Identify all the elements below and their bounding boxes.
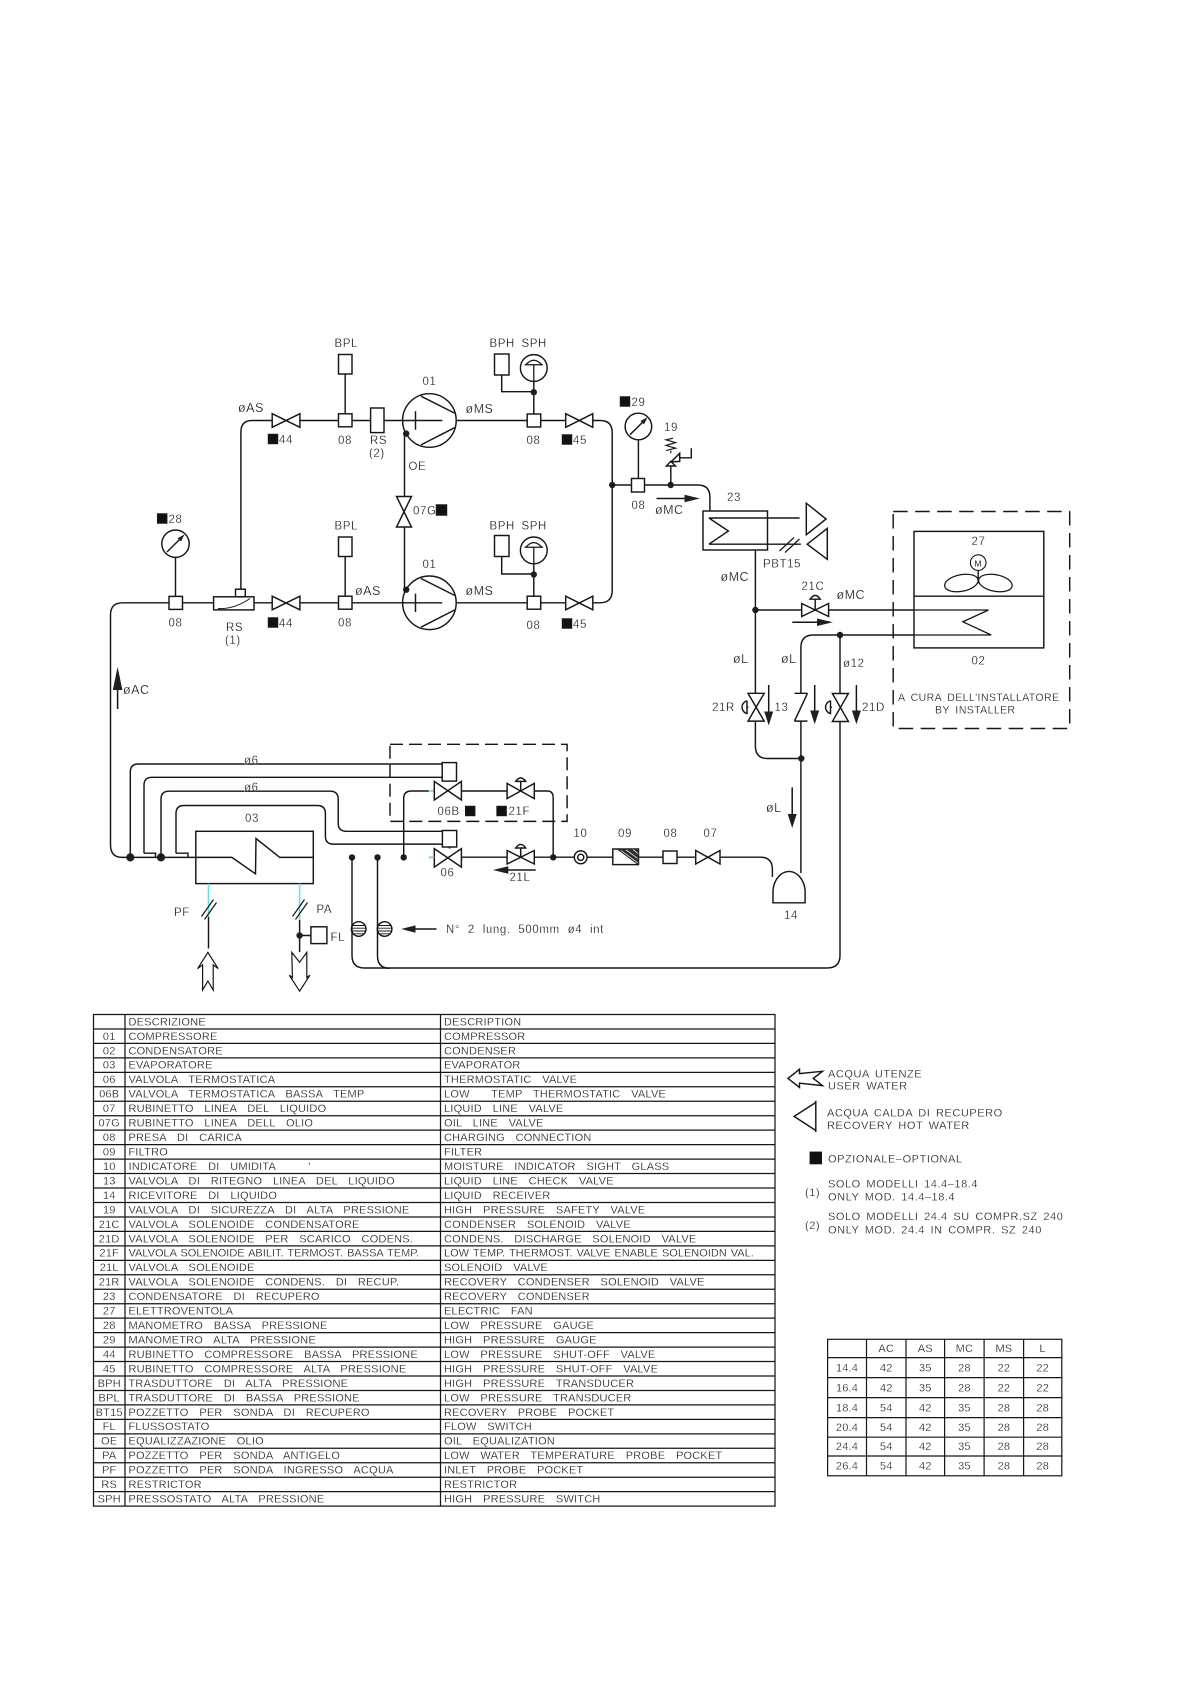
svg-text:CHARGING CONNECTION: CHARGING CONNECTION	[444, 1132, 592, 1144]
svg-text:PF: PF	[174, 907, 190, 919]
legend row 21D	[99, 1233, 697, 1245]
filter 09	[613, 849, 639, 865]
svg-text:POZZETTO PER SONDA DI RECUPERO: POZZETTO PER SONDA DI RECUPERO	[129, 1407, 370, 1419]
svg-text:44: 44	[279, 435, 293, 447]
node: relief valve tee	[668, 482, 674, 488]
label 03	[245, 813, 259, 825]
svg-text:LOW TEMP THERMOSTATIC VALVE: LOW TEMP THERMOSTATIC VALVE	[444, 1089, 666, 1101]
note (2)	[805, 1220, 820, 1232]
label oMC header	[655, 503, 684, 517]
wire: lower suction line from left bus	[111, 603, 403, 858]
size table row header	[878, 1343, 1046, 1355]
svg-text:BPH: BPH	[490, 521, 515, 533]
svg-text:21C: 21C	[802, 581, 825, 593]
svg-text:21R: 21R	[712, 702, 735, 714]
wire: capillary 2	[378, 857, 391, 968]
legend row 21C	[99, 1219, 631, 1231]
svg-text:RUBINETTO COMPRESSORE BASSA PR: RUBINETTO COMPRESSORE BASSA PRESSIONE	[129, 1349, 418, 1361]
svg-text:28: 28	[169, 514, 183, 526]
arrow capillary note	[401, 925, 436, 932]
svg-text:RECOVERY HOT WATER: RECOVERY HOT WATER	[827, 1120, 970, 1132]
wire: upper discharge line oMS	[456, 421, 612, 603]
svg-text:07: 07	[704, 828, 718, 840]
svg-text:14: 14	[103, 1190, 116, 1202]
svg-text:09: 09	[618, 828, 632, 840]
legend row 13	[103, 1175, 614, 1187]
condenser 02 box	[914, 531, 1044, 648]
svg-text:øL: øL	[733, 652, 749, 666]
svg-text:22: 22	[998, 1382, 1011, 1394]
svg-text:BPL: BPL	[98, 1392, 119, 1404]
svg-text:28: 28	[1036, 1461, 1049, 1473]
svg-text:OIL LINE VALVE: OIL LINE VALVE	[444, 1118, 544, 1130]
legend row 21R	[99, 1277, 705, 1289]
label 08 upper discharge	[527, 435, 541, 447]
svg-text:COMPRESSORE: COMPRESSORE	[129, 1031, 218, 1043]
svg-text:02: 02	[972, 656, 986, 668]
installer dashed box	[893, 512, 1069, 729]
flow switch FL	[311, 927, 327, 944]
label oL 21R	[733, 652, 749, 666]
solenoid valve 21D	[826, 694, 849, 722]
svg-text:VALVOLA TERMOSTATICA: VALVOLA TERMOSTATICA	[129, 1074, 276, 1086]
svg-text:35: 35	[958, 1441, 971, 1453]
label RS(1)	[225, 622, 243, 647]
svg-text:35: 35	[958, 1461, 971, 1473]
svg-text:øMS: øMS	[466, 402, 494, 416]
svg-text:FILTRO: FILTRO	[129, 1147, 169, 1159]
node: bulb line C tee	[157, 853, 165, 861]
label ACQUA UTENZE	[828, 1069, 922, 1081]
svg-text:MS: MS	[995, 1343, 1012, 1355]
wire: PF water inlet line	[208, 917, 210, 949]
arrow oMC into condenser	[792, 619, 833, 627]
label SPH lower	[522, 521, 547, 533]
wire: 21R drop line	[755, 610, 801, 759]
svg-text:45: 45	[573, 619, 587, 631]
svg-text:øMC: øMC	[837, 588, 866, 602]
svg-text:29: 29	[632, 397, 646, 409]
svg-text:ELETTROVENTOLA: ELETTROVENTOLA	[129, 1306, 234, 1318]
svg-text:VALVOLA DI RITEGNO LINEA DEL L: VALVOLA DI RITEGNO LINEA DEL LIQUIDO	[129, 1175, 396, 1187]
svg-text:RECOVERY CONDENSER SOLENOID VA: RECOVERY CONDENSER SOLENOID VALVE	[444, 1277, 705, 1289]
label 08 upper suction	[338, 435, 352, 447]
node: receiver feed junction	[798, 755, 804, 761]
svg-text:LOW PRESSURE TRANSDUCER: LOW PRESSURE TRANSDUCER	[444, 1392, 631, 1404]
svg-text:øL: øL	[766, 801, 782, 815]
svg-text:ONLY MOD. 14.4–18.4: ONLY MOD. 14.4–18.4	[828, 1192, 955, 1204]
node: 21D tee	[837, 632, 843, 638]
wire: liquid line from receiver to filter to TXV	[429, 857, 772, 877]
connector 08 lower suction left	[169, 596, 183, 609]
svg-text:21D: 21D	[862, 702, 885, 714]
valve 07 liquid line	[696, 851, 720, 865]
node: discharge bus junction	[609, 482, 615, 488]
svg-text:28: 28	[1036, 1441, 1049, 1453]
svg-text:LOW TEMP. THERMOST. VALVE ENAB: LOW TEMP. THERMOST. VALVE ENABLE SOLENOI…	[444, 1248, 754, 1260]
svg-text:08: 08	[664, 828, 678, 840]
size table row 24.4	[836, 1441, 1049, 1453]
legend row 10	[103, 1161, 669, 1173]
svg-text:13: 13	[103, 1175, 116, 1187]
legend row OE	[101, 1436, 555, 1448]
label N 2 lung. 500mm o4 int	[446, 924, 604, 936]
label SOLO MODELLI 24.4 SU COMPR.SZ 240	[828, 1211, 1063, 1223]
check valve 13	[795, 693, 808, 721]
wire: check valve 13 drop line	[800, 648, 802, 874]
label 21C	[802, 581, 825, 593]
svg-text:42: 42	[919, 1461, 932, 1473]
svg-text:23: 23	[103, 1291, 116, 1303]
legend row 27	[103, 1306, 533, 1318]
label 07G	[413, 505, 447, 518]
svg-text:TRASDUTTORE DI ALTA PRESSIONE: TRASDUTTORE DI ALTA PRESSIONE	[129, 1378, 349, 1390]
svg-text:RECOVERY CONDENSER: RECOVERY CONDENSER	[444, 1291, 590, 1303]
legend row SPH	[98, 1494, 601, 1506]
compressor 01 lower	[403, 576, 457, 630]
label PA	[317, 904, 333, 916]
label PF	[174, 907, 190, 919]
svg-text:21D: 21D	[99, 1233, 120, 1245]
svg-text:35: 35	[919, 1382, 932, 1394]
svg-text:35: 35	[919, 1362, 932, 1374]
solenoid valve 21L	[507, 844, 534, 864]
svg-text:(1): (1)	[805, 1187, 820, 1199]
legend row BT15	[96, 1407, 615, 1419]
arrow down to receiver	[788, 787, 797, 828]
svg-text:44: 44	[103, 1349, 116, 1361]
arrow water outlet (outline down)	[289, 952, 310, 991]
label BPH upper	[490, 338, 515, 350]
node: oil equalization tap lower	[403, 587, 409, 593]
evaporator 03	[196, 831, 313, 883]
svg-text:PA: PA	[102, 1450, 117, 1462]
svg-text:VALVOLA TERMOSTATICA BASSA TEM: VALVOLA TERMOSTATICA BASSA TEMP	[129, 1089, 365, 1101]
wire: 21F branch down	[534, 791, 553, 857]
recovery condenser 23	[703, 511, 801, 550]
arrow down after 21R	[764, 685, 773, 725]
svg-text:VALVOLA SOLENOIDE CONDENS. DI: VALVOLA SOLENOIDE CONDENS. DI RECUP.	[129, 1277, 400, 1289]
svg-text:FL: FL	[103, 1421, 116, 1433]
svg-text:(1): (1)	[225, 635, 241, 647]
label oMC vertical	[721, 570, 750, 584]
solenoid valve 21F	[507, 778, 534, 799]
svg-text:L: L	[1040, 1343, 1046, 1355]
legend row 08	[103, 1132, 592, 1144]
valve 44 upper	[272, 414, 300, 428]
transducer BPL upper	[339, 355, 353, 414]
wire: cyan tick 06B inlet	[429, 790, 435, 792]
valve 45 upper	[566, 414, 593, 428]
svg-text:FILTER: FILTER	[444, 1147, 482, 1159]
label 28	[158, 514, 183, 526]
svg-text:PA: PA	[317, 904, 333, 916]
svg-text:01: 01	[423, 376, 437, 388]
label 08 liquid line	[664, 828, 678, 840]
svg-text:CONDENSATORE: CONDENSATORE	[129, 1045, 223, 1057]
svg-text:22: 22	[998, 1362, 1011, 1374]
svg-text:MANOMETRO BASSA PRESSIONE: MANOMETRO BASSA PRESSIONE	[129, 1320, 328, 1332]
svg-text:21R: 21R	[99, 1277, 120, 1289]
legend row 19	[103, 1204, 645, 1216]
node: oil equalization tap upper	[403, 430, 409, 436]
svg-text:POZZETTO PER SONDA ANTIGELO: POZZETTO PER SONDA ANTIGELO	[129, 1450, 341, 1462]
svg-text:LOW PRESSURE GAUGE: LOW PRESSURE GAUGE	[444, 1320, 594, 1332]
connector 08 oMC header	[632, 479, 645, 493]
svg-text:TRASDUTTORE DI BASSA PRESSIONE: TRASDUTTORE DI BASSA PRESSIONE	[129, 1392, 360, 1404]
wire: 21D drop line	[827, 635, 840, 968]
wire: bulb line A	[130, 764, 442, 857]
svg-text:CONDENSATORE DI RECUPERO: CONDENSATORE DI RECUPERO	[129, 1291, 320, 1303]
capillary coil 1	[351, 922, 366, 937]
svg-text:08: 08	[632, 500, 646, 512]
svg-text:42: 42	[919, 1422, 932, 1434]
label o6 lower	[244, 782, 259, 794]
svg-text:HIGH PRESSURE GAUGE: HIGH PRESSURE GAUGE	[444, 1335, 597, 1347]
svg-text:RUBINETTO LINEA DEL LIQUIDO: RUBINETTO LINEA DEL LIQUIDO	[129, 1103, 327, 1115]
connector 08 liquid line	[663, 851, 677, 864]
fan motor M	[970, 555, 986, 583]
svg-text:14: 14	[784, 910, 798, 922]
svg-text:54: 54	[880, 1422, 893, 1434]
probe pocket PBT15 slash	[780, 538, 800, 553]
label 01 lower	[423, 559, 437, 571]
wire: bottom equalizer run	[365, 967, 828, 969]
label 21R	[712, 702, 735, 714]
svg-text:27: 27	[103, 1306, 116, 1318]
svg-text:10: 10	[103, 1161, 116, 1173]
symbol: user water outlet triangle	[806, 503, 826, 535]
svg-text:06B: 06B	[438, 806, 460, 818]
svg-text:ø6: ø6	[244, 755, 259, 767]
svg-text:øAS: øAS	[238, 401, 264, 415]
svg-text:CONDENSER SOLENOID VALVE: CONDENSER SOLENOID VALVE	[444, 1219, 631, 1231]
svg-text:28: 28	[998, 1422, 1011, 1434]
svg-text:26.4: 26.4	[836, 1461, 858, 1473]
size table row 14.4	[836, 1362, 1049, 1374]
wire: lower discharge line oMS	[456, 602, 566, 604]
svg-text:FLOW SWITCH: FLOW SWITCH	[444, 1421, 532, 1433]
svg-text:MC: MC	[956, 1343, 974, 1355]
svg-text:21L: 21L	[510, 872, 531, 884]
arrow water inlet (outline up)	[198, 952, 219, 990]
label ONLY MOD. 24.4 IN COMPR. SZ 240	[828, 1225, 1042, 1237]
svg-text:35: 35	[958, 1402, 971, 1414]
label oAS lower	[355, 584, 381, 598]
legend row PA	[102, 1450, 722, 1462]
legend row 44	[103, 1349, 656, 1361]
svg-text:RICEVITORE DI LIQUIDO: RICEVITORE DI LIQUIDO	[129, 1190, 278, 1202]
svg-text:DESCRIZIONE: DESCRIZIONE	[129, 1016, 206, 1028]
svg-text:SOLENOID VALVE: SOLENOID VALVE	[444, 1262, 548, 1274]
svg-text:ø12: ø12	[843, 658, 865, 670]
compressor size table frame	[828, 1339, 1062, 1476]
svg-text:ONLY MOD. 24.4 IN COMPR. SZ 24: ONLY MOD. 24.4 IN COMPR. SZ 240	[828, 1225, 1042, 1237]
svg-text:19: 19	[103, 1204, 116, 1216]
svg-text:LIQUID RECEIVER: LIQUID RECEIVER	[444, 1190, 550, 1202]
symbol: recovery hot water triangle	[794, 1101, 816, 1132]
svg-text:N° 2 lung. 500mm ø4 int: N° 2 lung. 500mm ø4 int	[446, 924, 604, 936]
label USER WATER	[828, 1081, 908, 1093]
node BPH/SPH junction lower	[531, 571, 537, 577]
svg-text:RS: RS	[226, 622, 243, 634]
svg-text:BPL: BPL	[335, 338, 359, 350]
electric fan 27 blades	[943, 572, 1014, 595]
size table row 20.4	[836, 1422, 1049, 1434]
label 08 lower suction right	[338, 618, 352, 630]
svg-text:BPH: BPH	[98, 1378, 121, 1390]
legend row 09	[103, 1147, 482, 1159]
legend row 29	[103, 1335, 597, 1347]
node: 21F branch junction	[550, 854, 556, 860]
size table row 26.4	[836, 1461, 1049, 1473]
svg-text:FL: FL	[331, 932, 346, 944]
svg-text:(2): (2)	[805, 1220, 820, 1232]
svg-text:OPZIONALE–OPTIONAL: OPZIONALE–OPTIONAL	[828, 1154, 963, 1166]
label ACQUA CALDA DI RECUPERO	[827, 1108, 1003, 1120]
svg-text:PBT15: PBT15	[763, 559, 801, 571]
svg-text:54: 54	[880, 1441, 893, 1453]
probe pocket PA slashes	[293, 900, 308, 920]
svg-text:23: 23	[727, 492, 741, 504]
svg-text:10: 10	[574, 828, 588, 840]
wire: 06B to 21F	[461, 790, 507, 792]
connector 08 lower discharge	[527, 596, 541, 609]
svg-text:A CURA DELL'INSTALLATORE: A CURA DELL'INSTALLATORE	[898, 692, 1059, 704]
svg-text:09: 09	[103, 1147, 116, 1159]
svg-text:M: M	[974, 558, 981, 568]
connector 08 lower suction right	[339, 596, 353, 609]
svg-text:08: 08	[169, 618, 183, 630]
label 21F	[497, 806, 530, 818]
svg-text:EVAPORATORE: EVAPORATORE	[129, 1060, 213, 1072]
label 08 lower discharge	[527, 620, 541, 632]
svg-text:MANOMETRO ALTA PRESSIONE: MANOMETRO ALTA PRESSIONE	[129, 1335, 316, 1347]
legend row FL	[103, 1421, 532, 1433]
svg-text:PRESSOSTATO ALTA PRESSIONE: PRESSOSTATO ALTA PRESSIONE	[129, 1494, 325, 1506]
svg-text:SOLO MODELLI 24.4 SU COMPR.SZ: SOLO MODELLI 24.4 SU COMPR.SZ 240	[828, 1211, 1063, 1223]
legend row 21F	[99, 1248, 753, 1260]
svg-text:06: 06	[103, 1074, 116, 1086]
label o6 upper	[244, 755, 259, 767]
svg-text:HIGH PRESSURE TRANSDUCER: HIGH PRESSURE TRANSDUCER	[444, 1378, 634, 1390]
label 44 upper	[269, 435, 294, 447]
compressor 01 upper	[403, 394, 457, 448]
label 23	[727, 492, 741, 504]
legend row BPL	[98, 1392, 631, 1404]
label 08 oMC header	[632, 500, 646, 512]
liquid receiver 14	[773, 871, 805, 902]
legend row PF	[102, 1465, 584, 1477]
label RECOVERY HOT WATER	[827, 1120, 970, 1132]
svg-text:LOW PRESSURE SHUT-OFF VALVE: LOW PRESSURE SHUT-OFF VALVE	[444, 1349, 655, 1361]
label OE	[409, 461, 427, 473]
svg-text:INLET PROBE POCKET: INLET PROBE POCKET	[444, 1465, 584, 1477]
wire: PA water outlet line	[300, 920, 311, 952]
svg-text:RESTRICTOR: RESTRICTOR	[129, 1479, 202, 1491]
svg-text:CONDENS. DISCHARGE SOLENOID VA: CONDENS. DISCHARGE SOLENOID VALVE	[444, 1233, 696, 1245]
svg-text:RESTRICTOR: RESTRICTOR	[444, 1479, 517, 1491]
svg-text:øAS: øAS	[355, 584, 381, 598]
svg-text:13: 13	[775, 702, 789, 714]
pressure switch SPH lower	[520, 537, 547, 596]
label A CURA DELL'INSTALLATORE	[898, 692, 1059, 704]
svg-text:28: 28	[958, 1362, 971, 1374]
svg-text:ACQUA CALDA DI RECUPERO: ACQUA CALDA DI RECUPERO	[827, 1108, 1003, 1120]
svg-text:24.4: 24.4	[836, 1441, 858, 1453]
sight glass 10	[574, 851, 587, 864]
size table row 16.4	[836, 1382, 1049, 1394]
svg-text:45: 45	[573, 435, 587, 447]
node BPH/SPH junction upper	[531, 389, 537, 395]
svg-text:LIQUID LINE VALVE: LIQUID LINE VALVE	[444, 1103, 563, 1115]
label 10	[574, 828, 588, 840]
node: flow switch tee	[296, 932, 302, 938]
svg-text:CONDENSER: CONDENSER	[444, 1045, 516, 1057]
legend row 03	[103, 1060, 521, 1072]
svg-text:01: 01	[423, 559, 437, 571]
svg-text:RS: RS	[101, 1479, 117, 1491]
valve 44 lower	[272, 596, 300, 610]
wire: oMC header line	[612, 485, 710, 511]
wire: bulb line B	[144, 777, 442, 857]
node: TXV feed tee	[401, 854, 407, 860]
label 07	[704, 828, 718, 840]
svg-text:28: 28	[998, 1461, 1011, 1473]
transducer BPL lower	[339, 537, 353, 596]
svg-text:HIGH PRESSURE SAFETY VALVE: HIGH PRESSURE SAFETY VALVE	[444, 1204, 645, 1216]
node: capillary 2 tee	[374, 854, 380, 860]
restrictor RS(2)	[371, 408, 384, 433]
legend row 06B	[99, 1089, 666, 1101]
svg-text:21L: 21L	[100, 1262, 119, 1274]
svg-text:VALVOLA DI SICUREZZA DI ALTA P: VALVOLA DI SICUREZZA DI ALTA PRESSIONE	[129, 1204, 410, 1216]
svg-text:01: 01	[103, 1031, 116, 1043]
svg-text:28: 28	[998, 1402, 1011, 1414]
legend table frame	[94, 1015, 776, 1507]
svg-text:28: 28	[958, 1382, 971, 1394]
svg-text:ø6: ø6	[244, 782, 259, 794]
svg-text:øMC: øMC	[721, 570, 750, 584]
gauge 28 low pressure	[162, 530, 189, 596]
svg-text:03: 03	[103, 1060, 116, 1072]
label 19	[664, 422, 678, 434]
svg-text:OE: OE	[409, 461, 427, 473]
label PBT15	[763, 559, 801, 571]
svg-text:28: 28	[998, 1441, 1011, 1453]
legend row 07G	[98, 1118, 543, 1130]
svg-text:MOISTURE INDICATOR SIGHT GLASS: MOISTURE INDICATOR SIGHT GLASS	[444, 1161, 669, 1173]
svg-text:PF: PF	[102, 1465, 117, 1477]
svg-text:EQUALIZZAZIONE OLIO: EQUALIZZAZIONE OLIO	[129, 1436, 265, 1448]
svg-text:16.4: 16.4	[836, 1382, 858, 1394]
label FL	[331, 932, 346, 944]
svg-text:øL: øL	[781, 652, 797, 666]
svg-text:HIGH PRESSURE SWITCH: HIGH PRESSURE SWITCH	[444, 1494, 601, 1506]
svg-text:03: 03	[245, 813, 259, 825]
wire: bulb line D	[176, 806, 442, 858]
label 01 upper	[423, 376, 437, 388]
label oL receiver	[766, 801, 782, 815]
svg-text:27: 27	[972, 536, 986, 548]
wire: bulb line C	[161, 791, 442, 857]
wire: evaporator water stub PA (cyan)	[299, 884, 301, 920]
legend row header	[129, 1016, 522, 1028]
svg-text:02: 02	[103, 1045, 116, 1057]
TXV dashed box	[390, 744, 567, 821]
svg-text:LOW WATER TEMPERATURE PROBE PO: LOW WATER TEMPERATURE PROBE POCKET	[444, 1450, 722, 1462]
symbol: user water arrow	[788, 1069, 823, 1087]
